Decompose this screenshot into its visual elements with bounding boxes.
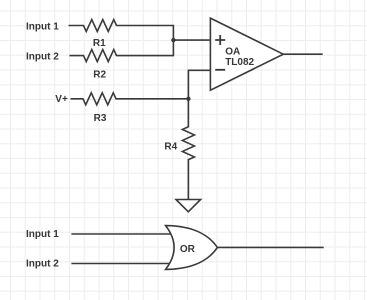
svg-text:TL082: TL082 — [225, 57, 254, 68]
svg-text:R4: R4 — [164, 142, 177, 153]
svg-text:Input 1: Input 1 — [26, 229, 59, 240]
svg-text:Input 2: Input 2 — [26, 258, 59, 269]
svg-text:V+: V+ — [55, 94, 68, 105]
svg-text:R3: R3 — [94, 113, 107, 124]
svg-text:Input 1: Input 1 — [26, 21, 59, 32]
svg-text:OR: OR — [180, 244, 196, 255]
svg-text:Input 2: Input 2 — [26, 51, 59, 62]
svg-text:R2: R2 — [93, 70, 106, 81]
svg-text:R1: R1 — [93, 38, 106, 49]
